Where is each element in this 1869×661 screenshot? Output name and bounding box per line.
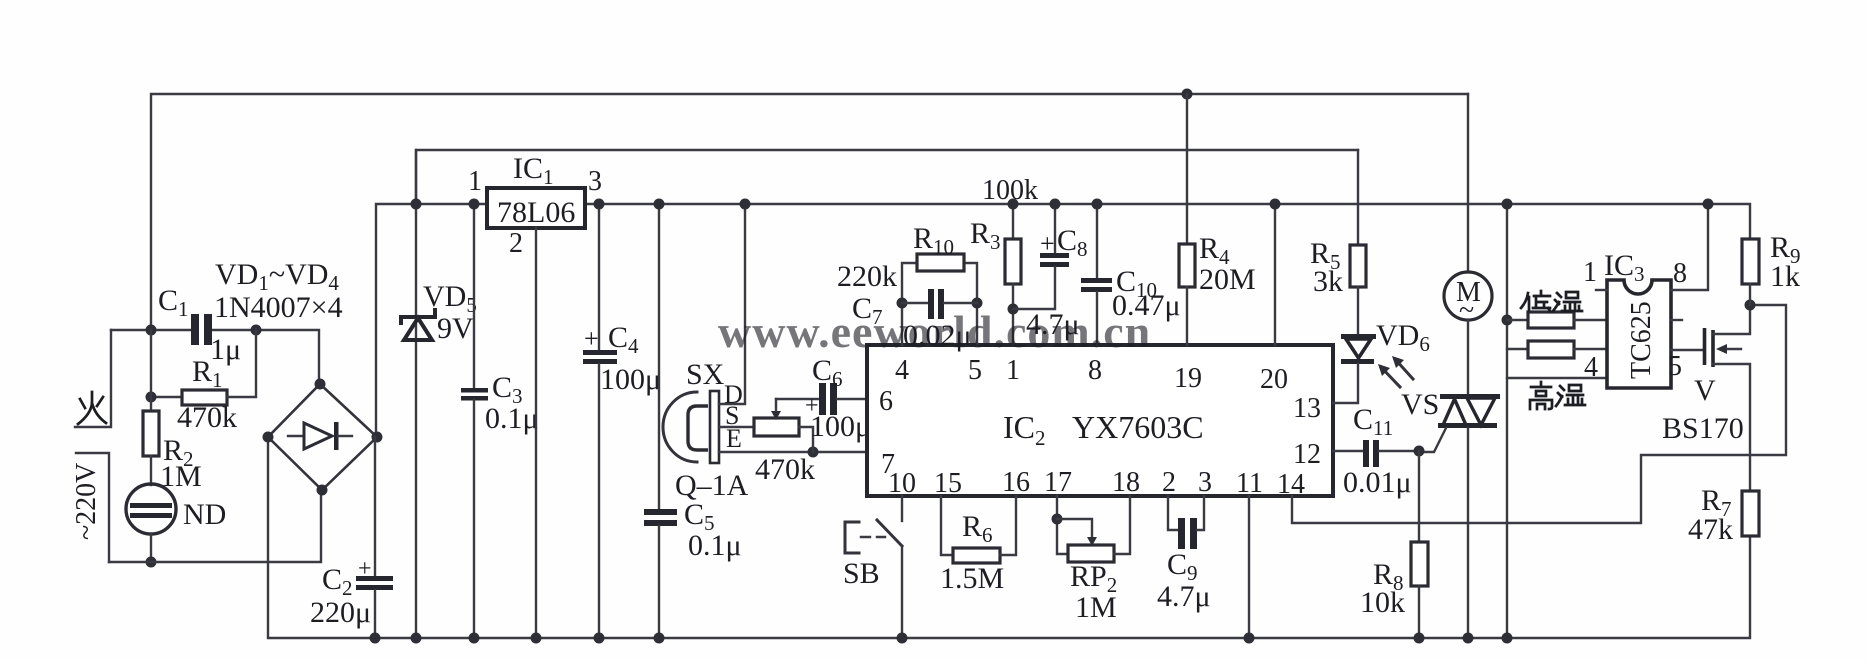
svg-text:SB: SB (843, 557, 880, 590)
label 0.1u value of C5 (688, 529, 742, 562)
wire 6V/9V rail y=204 (376, 204, 1750, 437)
label VS (1401, 388, 1439, 421)
svg-text:5: 5 (1668, 351, 1682, 382)
svg-text:www.eeworld.com.cn: www.eeworld.com.cn (718, 306, 1151, 357)
svg-text:220μ: 220μ (310, 596, 371, 629)
node junction on top bus at R4 (1182, 89, 1193, 100)
resistor R8 (1411, 451, 1428, 644)
wire pin2 of IC1 to ground (531, 228, 542, 644)
label 100u value of C4 (600, 363, 661, 396)
svg-text:78L06: 78L06 (497, 196, 575, 229)
svg-text:+: + (358, 556, 372, 582)
node drain junction below R9 (1745, 300, 1756, 311)
label 4.7u value of C8 (1026, 308, 1080, 341)
wire pin E of sensor to IC2 pin7 (719, 447, 867, 458)
label pin2 of IC1 (509, 228, 523, 259)
label pin1 of IC3 (1583, 257, 1597, 288)
zener diode VD5 (401, 150, 435, 644)
svg-text:16: 16 (1002, 467, 1030, 498)
svg-text:12: 12 (1293, 439, 1321, 470)
label 0.47u value of C10 (1112, 289, 1181, 322)
svg-text:8: 8 (1673, 258, 1687, 289)
label 47k value of R7 (1688, 513, 1733, 546)
wire top bus y=94 from live terminal to motor branch (151, 94, 1468, 330)
capacitor C11 (1333, 440, 1425, 467)
wire pin1 stub of IC3 (1596, 289, 1607, 291)
label 1.5M value of R6 (940, 562, 1004, 595)
wire pin8 of IC3 to rail (1671, 199, 1714, 291)
label C8 (1057, 224, 1088, 261)
wire unused stub of IC3 (1671, 319, 1682, 321)
capacitor C2 electrolytic (356, 437, 393, 644)
svg-text:TC625: TC625 (1626, 301, 1657, 379)
label R9 (1770, 231, 1801, 268)
label BS170 (1662, 412, 1744, 445)
label pin5 of IC3 (1668, 351, 1682, 382)
svg-text:~: ~ (1459, 295, 1474, 326)
wire pin11 of IC2 to ground (1244, 496, 1255, 644)
label 220k value of R10 (837, 260, 897, 293)
svg-text:20: 20 (1260, 364, 1288, 395)
svg-text:6: 6 (879, 386, 893, 417)
svg-text:8: 8 (1088, 355, 1102, 386)
label IC3 (1604, 249, 1645, 286)
label R2 (163, 434, 194, 471)
wire pin20 of IC2 to rail (1270, 199, 1281, 346)
wire neutral to bridge bottom y=562 (109, 490, 321, 562)
svg-text:3: 3 (1198, 467, 1212, 498)
svg-text:VD1~VD4: VD1~VD4 (215, 258, 339, 295)
label C7 (852, 292, 883, 329)
label C11 (1353, 403, 1393, 440)
resistor R4 (1179, 94, 1195, 345)
label 100u value of C6 (810, 410, 871, 443)
bridge rectifier VD1-VD4 diamond (263, 379, 383, 496)
label VD5 (423, 280, 477, 317)
wire pin14 of IC2 loop to drain node (1292, 305, 1786, 523)
label 0.02u value of C7 (903, 319, 972, 352)
svg-text:ND: ND (183, 498, 226, 531)
svg-text:100μ: 100μ (600, 363, 661, 396)
label C6 (812, 354, 843, 391)
capacitor C10 (1081, 199, 1112, 346)
svg-text:+: + (1040, 229, 1055, 258)
svg-text:220k: 220k (837, 260, 897, 293)
terminal 火 (live) lead (75, 330, 111, 427)
svg-text:0.01μ: 0.01μ (1343, 466, 1412, 499)
svg-text:1.5M: 1.5M (940, 562, 1004, 595)
svg-text:100μ: 100μ (810, 410, 871, 443)
triac VS (1419, 394, 1500, 644)
svg-text:1N4007×4: 1N4007×4 (214, 291, 343, 324)
label 1u value of C1 (210, 333, 241, 366)
label IC2 YX7603C (1003, 409, 1204, 450)
svg-text:2: 2 (509, 228, 523, 259)
watermark www.eeworld.com.cn (718, 306, 1151, 357)
label plus of C4 (584, 324, 599, 353)
label 高温 (1530, 382, 1585, 409)
label R7 (1701, 484, 1732, 521)
wire bottom ground rail y=638 (268, 437, 1750, 638)
svg-text:YX7603C: YX7603C (1072, 409, 1204, 445)
label 9V value of VD5 (437, 312, 474, 345)
svg-text:1: 1 (1583, 257, 1597, 288)
label D (724, 380, 743, 409)
label E (726, 424, 742, 453)
label ~220V rotated (71, 463, 102, 540)
wire pin5 gate lead of IC3 (1671, 349, 1703, 351)
label 220u value of C2 (310, 596, 371, 629)
label R4 (1199, 232, 1230, 269)
label pin numbers right side of IC2 (1293, 393, 1321, 470)
svg-text:+: + (584, 324, 599, 353)
label plus of C2 (358, 556, 372, 582)
svg-text:470k: 470k (177, 401, 237, 434)
svg-text:19: 19 (1174, 363, 1202, 394)
label R5 (1310, 237, 1341, 274)
op-amp IC1 78L06 regulator box (487, 188, 585, 229)
label C2 (322, 563, 353, 600)
IC3 TC625 box (1607, 280, 1671, 388)
label 20M value of R4 (1199, 263, 1256, 296)
svg-text:V: V (1694, 374, 1716, 407)
potentiometer 470k (754, 399, 813, 452)
terminal ~220V (neutral) lead (76, 453, 109, 562)
svg-text:13: 13 (1293, 393, 1321, 424)
label pin1 of IC1 (468, 166, 482, 197)
resistor R2 (143, 330, 159, 485)
svg-text:9V: 9V (437, 312, 474, 345)
svg-text:Q–1A: Q–1A (675, 469, 749, 502)
node A live input: C1 node horizontal y=330 (111, 325, 319, 385)
label 10k value of R8 (1360, 586, 1405, 619)
label 0.01u value of C11 (1343, 466, 1412, 499)
label 1k value of R9 (1770, 260, 1800, 293)
thermistor low temperature (1507, 312, 1607, 328)
svg-text:7: 7 (881, 449, 895, 480)
label 3k value of R5 (1313, 265, 1343, 298)
label 低温 (1521, 291, 1582, 311)
LED VD6 (1333, 334, 1413, 403)
label R3 (970, 217, 1001, 254)
IC2 YX7603C box (867, 345, 1333, 496)
svg-text:15: 15 (934, 468, 962, 499)
svg-text:3: 3 (588, 166, 602, 197)
label pin numbers bottom row of IC2 (888, 467, 1305, 500)
capacitor C9 (1168, 496, 1204, 549)
svg-text:0.1μ: 0.1μ (485, 402, 539, 435)
label C3 (492, 371, 523, 408)
svg-text:20M: 20M (1199, 263, 1256, 296)
resistor R6 (941, 496, 1016, 563)
label 火 (78, 392, 106, 424)
svg-text:SX: SX (686, 358, 725, 391)
svg-text:18: 18 (1112, 467, 1140, 498)
label pin numbers top row of IC2 (895, 355, 1288, 395)
svg-text:~220V: ~220V (71, 463, 102, 540)
capacitor C5 (644, 199, 677, 644)
label R6 (962, 510, 993, 547)
label R1 (192, 355, 223, 392)
MOSFET V BS170 (1705, 305, 1751, 491)
svg-text:47k: 47k (1688, 513, 1733, 546)
motor M (1444, 94, 1492, 394)
label SX (686, 358, 725, 391)
label S (725, 401, 739, 430)
label pin3 of IC1 (588, 166, 602, 197)
potentiometer RP2 (1052, 496, 1131, 562)
svg-text:100k: 100k (982, 175, 1038, 206)
resistor R7 (1742, 491, 1759, 536)
label R10 (913, 222, 954, 259)
svg-text:1k: 1k (1770, 260, 1800, 293)
svg-text:1: 1 (1006, 355, 1020, 386)
label V (1694, 374, 1716, 407)
label C10 (1116, 265, 1157, 302)
label 470k value of R1 (177, 401, 237, 434)
label SB (843, 557, 880, 590)
wire rail branch to thermistors and ground x=1507 (1502, 199, 1513, 644)
label 1N4007x4 (214, 291, 343, 324)
svg-text:4: 4 (1584, 352, 1598, 383)
label pin8 of IC3 (1673, 258, 1687, 289)
resistor R9 (1742, 239, 1759, 305)
resistor R5 (1350, 150, 1366, 336)
label Q-1A (675, 469, 749, 502)
svg-text:470k: 470k (755, 453, 815, 486)
svg-text:E: E (726, 424, 742, 453)
svg-text:BS170: BS170 (1662, 412, 1744, 445)
svg-text:1: 1 (468, 166, 482, 197)
label C5 (684, 498, 715, 535)
capacitor C3 (461, 199, 488, 644)
wire pin4 of IC3 (1507, 377, 1607, 379)
resistor R10 with capacitor C7 parallel between pins 4 and 5 (897, 254, 983, 345)
label pin4 of IC3 (1584, 352, 1598, 383)
svg-text:0.1μ: 0.1μ (688, 529, 742, 562)
capacitor C1 plates (191, 314, 212, 345)
label IC1 (513, 152, 554, 189)
label C1 (158, 284, 189, 321)
label R8 (1373, 558, 1404, 595)
svg-text:VS: VS (1401, 388, 1439, 421)
label 470k value of potentiometer (755, 453, 815, 486)
label 1M value of RP2 (1075, 591, 1117, 624)
svg-text:1M: 1M (1075, 591, 1117, 624)
svg-text:10k: 10k (1360, 586, 1405, 619)
svg-text:4: 4 (895, 355, 909, 386)
humidity sensor SX (663, 391, 719, 463)
label RP2 (1070, 560, 1117, 597)
svg-text:17: 17 (1044, 467, 1072, 498)
wire second bus y=150 from 9V rail corner to R5 (416, 150, 1358, 204)
label 100k value of R3 (982, 175, 1038, 206)
resistor R1 (146, 330, 257, 405)
capacitor C8 electrolytic (1013, 199, 1069, 310)
label 1M value of R2 (160, 460, 202, 493)
capacitor C6 electrolytic (776, 383, 867, 415)
label plus of C6 (805, 393, 819, 419)
wire pin D of sensor to rail (719, 199, 751, 405)
label C4 (608, 321, 639, 358)
label 0.1u value of C3 (485, 402, 539, 435)
label VD6 (1376, 319, 1430, 356)
label C9 (1167, 548, 1198, 585)
label 4.7u value of C9 (1157, 580, 1211, 613)
svg-text:5: 5 (968, 355, 982, 386)
capacitor C4 electrolytic (583, 199, 617, 644)
svg-text:2: 2 (1162, 467, 1176, 498)
thermistor high temperature (1507, 341, 1607, 358)
label pin numbers left side of IC2 (879, 386, 895, 480)
resistor R3 (1005, 199, 1021, 346)
svg-text:11: 11 (1236, 468, 1263, 499)
svg-text:4.7μ: 4.7μ (1157, 580, 1211, 613)
label plus of C8 (1040, 229, 1055, 258)
svg-text:3k: 3k (1313, 265, 1343, 298)
label VD1~VD4 (215, 258, 339, 295)
neon lamp ND (126, 484, 176, 568)
label ND (183, 498, 226, 531)
svg-text:1μ: 1μ (210, 333, 241, 366)
wire pin S of sensor (719, 426, 754, 428)
switch SB (845, 496, 908, 644)
